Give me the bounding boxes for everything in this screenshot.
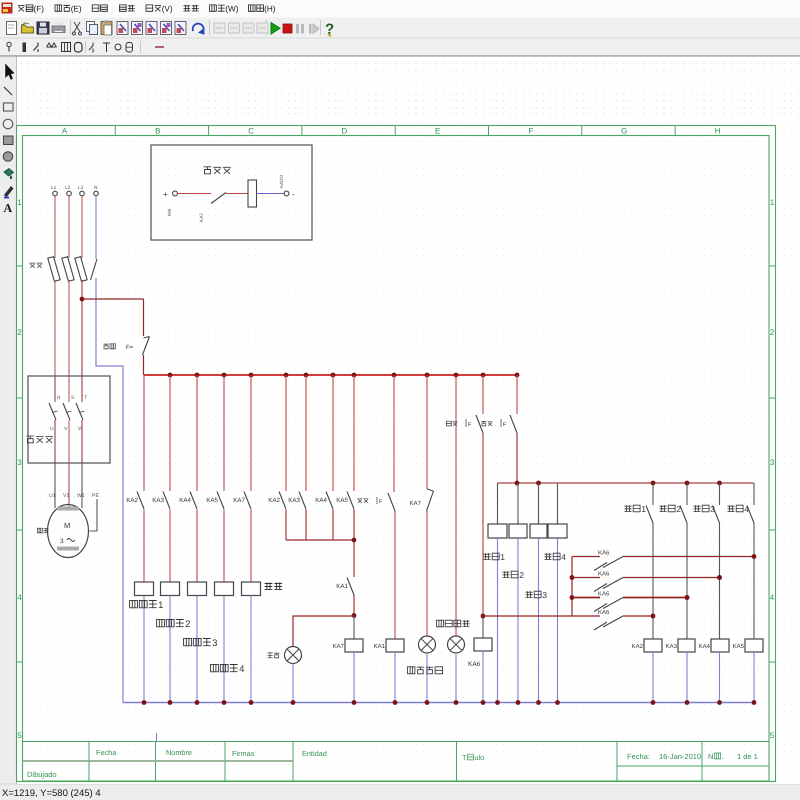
water alarm lamp HL2 [426, 511, 428, 636]
neutral terminal N [94, 191, 99, 196]
svg-text:PE: PE [92, 493, 99, 499]
svg-text:KA3: KA3 [288, 497, 300, 504]
svg-text:V1: V1 [63, 493, 69, 499]
toolbar icon: open [22, 25, 34, 33]
temp controller box 2 [509, 524, 527, 538]
toolbar2 icon: wire dash [155, 46, 164, 48]
wire F1 to bus [143, 355, 145, 375]
coil KA4 right [711, 639, 729, 652]
KA6 NC contact branch 3 [572, 597, 600, 599]
node neutral bus x=395 [393, 700, 398, 705]
svg-text:1: 1 [17, 198, 22, 207]
svg-text:2: 2 [519, 570, 524, 580]
coil KA3 right [678, 639, 695, 652]
label solenoid valve 2 [157, 619, 184, 626]
inverter label bian-pin-qi [27, 436, 53, 443]
svg-text:W1: W1 [77, 493, 85, 499]
svg-text:KA6: KA6 [598, 591, 610, 598]
svg-text:2: 2 [185, 619, 190, 630]
node neutral bus x=197 [195, 700, 200, 705]
temp box outputs to bus [497, 538, 499, 703]
toolbar2 icon: contact [34, 43, 39, 53]
svg-text:3: 3 [17, 458, 22, 467]
auto switch to temp bus [516, 433, 518, 483]
node temp bus x=719.5 [717, 481, 722, 486]
toolbar icon: run [271, 23, 280, 35]
canvas grid bands [20, 63, 800, 65]
label kong-kai (air breaker) [29, 263, 42, 268]
svg-text:4: 4 [239, 664, 244, 675]
node bus L+ x=333 [331, 373, 336, 378]
detail wire minus [257, 193, 285, 195]
svg-text:KA7: KA7 [199, 213, 205, 222]
label water shortage alarm [408, 667, 443, 674]
svg-text:KA2: KA2 [126, 497, 138, 504]
node temp sw3 tap [717, 575, 722, 580]
node neutral bus x=483 [481, 700, 486, 705]
palette icon: pen [5, 187, 14, 197]
frame outer border [17, 126, 776, 782]
node temp bus x=653 [651, 481, 656, 486]
svg-text:KA3: KA3 [152, 497, 164, 504]
svg-text:1 de 1: 1 de 1 [737, 752, 758, 761]
node neutral bus x=427 [425, 700, 430, 705]
node neutral bus x=687 [685, 700, 690, 705]
svg-text:4: 4 [17, 593, 22, 602]
toolbar2 icon: small circle [115, 44, 121, 50]
node bus L+ x=224 [222, 373, 227, 378]
title block lines [23, 741, 770, 743]
node KA6 branch [481, 614, 486, 619]
node bus L+ x=394 [392, 373, 397, 378]
svg-text:3: 3 [710, 504, 715, 514]
toolbar2 icon: T symbol [103, 43, 110, 52]
KA6 ladder feeder [571, 557, 573, 617]
toolbar icons: disabled group [214, 23, 225, 33]
svg-text:2: 2 [676, 504, 681, 514]
node bus L+ x=286 [284, 373, 289, 378]
svg-text:Entidad: Entidad [302, 749, 327, 758]
label temp ctrl 4 (box) [545, 553, 561, 560]
svg-text:2: 2 [17, 328, 22, 337]
circuit breaker QF pole 2 [62, 257, 74, 282]
left tool palette [0, 56, 17, 784]
toolbar icon: print [52, 26, 65, 33]
contact KA5 row1 [217, 492, 224, 510]
svg-text:KA4: KA4 [179, 497, 191, 504]
wire drop col KA3 [169, 375, 171, 491]
coil KA5 right [745, 639, 763, 652]
start pushbutton SB1 [388, 493, 395, 511]
contact KA2 row1 [137, 492, 144, 510]
contact KA5 row2 [347, 492, 354, 510]
svg-text:2: 2 [770, 328, 775, 337]
svg-text:L2: L2 [65, 185, 71, 191]
svg-text:(V): (V) [162, 5, 173, 14]
node bus L+ x=170 [168, 373, 173, 378]
svg-text:4: 4 [744, 504, 749, 514]
frequency drive detail box [151, 145, 312, 240]
svg-text:(F): (F) [34, 5, 45, 14]
node neutral bus x=293 [291, 700, 296, 705]
node bus L+ x=456 [454, 373, 459, 378]
node neutral bus x=538.5 [536, 700, 541, 705]
node bus L+ x=483 [481, 373, 486, 378]
svg-text:Firmas: Firmas [232, 749, 255, 758]
inverter input leads R S T [54, 377, 56, 402]
wire drop col KA7 NC [426, 375, 428, 489]
node neutral bus x=754 [752, 700, 757, 705]
svg-text:Dibujado: Dibujado [27, 770, 57, 779]
svg-text:.: . [722, 752, 724, 761]
toolbar icon: copy [87, 22, 95, 32]
frame column ticks [114, 126, 116, 136]
emergency stop breaker F1 [144, 337, 150, 339]
green lamp HL1 [285, 647, 302, 664]
svg-text:U: U [50, 426, 54, 432]
svg-text:KA5: KA5 [733, 643, 745, 650]
palette icon: line [4, 87, 12, 95]
svg-text:KA3: KA3 [666, 643, 678, 650]
lamp HL1 to bus [292, 664, 294, 703]
wire N upper [95, 196, 97, 259]
motor M1 [48, 505, 89, 558]
palette icon: pointer [6, 64, 15, 80]
wire drop col KA4b [332, 375, 334, 491]
temp controller box 4 [548, 524, 567, 538]
toolbar icon: stop [283, 24, 292, 33]
coil KA2 right [644, 639, 662, 652]
auto switch SA2 [516, 375, 518, 414]
temp switch 4 [753, 483, 755, 505]
node temp bus x=687 [685, 481, 690, 486]
svg-text:3: 3 [60, 538, 64, 545]
toolbar icons: component library (5) [117, 22, 128, 35]
temp controller feeds [497, 483, 499, 524]
contact KA4 row2 [326, 492, 333, 510]
palette icon: filled ellipse [3, 152, 13, 162]
svg-text:KA6: KA6 [598, 571, 610, 578]
svg-text:KA5: KA5 [206, 497, 218, 504]
svg-text:3: 3 [212, 638, 217, 649]
phase terminal L3 [80, 191, 85, 196]
wire L3 lower [81, 280, 83, 377]
neutral bottom bus [123, 702, 754, 704]
svg-text:KA4: KA4 [699, 643, 711, 650]
node neutral bus x=456 [454, 700, 459, 705]
temp switch 1 [652, 483, 654, 505]
svg-text:(E): (E) [71, 5, 82, 14]
wire L1 lower [54, 280, 56, 377]
svg-text:3: 3 [542, 590, 547, 600]
detail box title bian-pin-qi [204, 166, 231, 173]
temp switch 3 [719, 483, 721, 505]
manual switch SA1 [482, 375, 484, 414]
detail wire to resistor [226, 193, 248, 195]
svg-text:F=: F= [126, 344, 134, 351]
detail - terminal [284, 191, 289, 196]
green lamp branch wire [293, 616, 354, 646]
svg-text:D: D [342, 127, 348, 136]
svg-text:1: 1 [641, 504, 646, 514]
svg-text:C: C [248, 127, 254, 136]
solenoid coil Y2 [161, 582, 180, 596]
svg-text:KA6: KA6 [468, 661, 481, 668]
svg-text:KA2: KA2 [632, 643, 644, 650]
label temp ctrl 3 (box) [526, 591, 542, 598]
toolbar icon: paste [101, 22, 112, 35]
label dian-ji (motor) [37, 528, 48, 533]
wire drop col power lamp [455, 375, 457, 636]
contact KA7 row1 [244, 492, 251, 510]
phase terminal L2 [67, 191, 72, 196]
wire L2 lower [68, 280, 70, 377]
wire drop col KA5b [353, 375, 355, 491]
inverter output leads [54, 420, 56, 463]
svg-text:E: E [435, 127, 440, 136]
svg-text:KA7: KA7 [333, 643, 345, 650]
node temp sw2 tap [685, 595, 690, 600]
svg-text:R: R [57, 395, 61, 401]
svg-text:(H): (H) [264, 5, 276, 14]
wire L1 upper [54, 196, 56, 258]
wire drop col KA3b [305, 375, 307, 491]
svg-text:KA7: KA7 [233, 497, 245, 504]
svg-text:-: - [292, 190, 295, 199]
detail resistor component [248, 180, 257, 207]
svg-text:Nombre: Nombre [166, 748, 192, 757]
temp controller box 3 [530, 524, 547, 538]
circuit breaker QF pole 1 [48, 257, 60, 282]
svg-text:A: A [4, 201, 13, 215]
KA6 NC contact branch 2 [572, 577, 600, 579]
wire drop col start button [393, 375, 395, 492]
motor PE wire [90, 499, 98, 531]
node neutral bus x=251 [249, 700, 254, 705]
wire L3 upper [81, 196, 83, 258]
label F1 actuator [103, 344, 115, 349]
wire drop col KA7 [250, 375, 252, 491]
wire drop col KA2b [285, 375, 287, 491]
svg-text:KA5: KA5 [336, 497, 348, 504]
svg-text:5: 5 [770, 731, 775, 740]
label green lamp [267, 653, 279, 658]
node bus L+ x=251 [249, 373, 254, 378]
svg-text:3: 3 [770, 458, 775, 467]
temp switch 2 [686, 483, 688, 505]
frame row ticks [17, 265, 23, 267]
svg-text:T: T [462, 753, 467, 762]
node neutral bus x=719.5 [717, 700, 722, 705]
toolbar row 2 [0, 39, 800, 56]
frame inner border [23, 136, 770, 782]
svg-text:L3: L3 [78, 185, 84, 191]
power indicator lamp HL3 [448, 636, 465, 653]
svg-text:KA2: KA2 [268, 497, 280, 504]
wire L2 upper [68, 196, 70, 258]
node bus L+ x=354 [352, 373, 357, 378]
svg-text:+: + [163, 190, 168, 199]
breaker switch blade N [91, 259, 98, 280]
svg-text:B: B [155, 127, 160, 136]
label temp ctrl 1 (box) [484, 553, 500, 560]
node neutral bus x=144 [142, 700, 147, 705]
svg-text:IN9: IN9 [167, 208, 172, 216]
label solenoid valve 1 [130, 600, 157, 607]
palette icon: filled rectangle [4, 136, 14, 145]
wire drop col KA4 [196, 375, 198, 491]
palette icon: rectangle [4, 103, 14, 111]
toolbar icon: cut [74, 22, 80, 32]
node bus L+ x=517 [515, 373, 520, 378]
toolbar icon: pause [296, 24, 299, 34]
svg-text:4: 4 [770, 593, 775, 602]
coil KA6 [474, 638, 492, 651]
toolbar2 icon: ring [75, 43, 83, 53]
svg-text:Fecha: Fecha [96, 748, 117, 757]
svg-text:U1: U1 [49, 493, 56, 499]
relief valve coil [242, 582, 261, 596]
coil KA1 [394, 511, 396, 639]
svg-text:1: 1 [770, 198, 775, 207]
svg-text:4: 4 [561, 552, 566, 562]
toolbar2 icon: grid symbol [62, 43, 71, 52]
svg-text:KA7: KA7 [410, 500, 422, 507]
toolbar2 icon: small contact [89, 43, 93, 53]
inverter contact blades [49, 403, 56, 420]
wire drop col KA2 [143, 375, 145, 491]
svg-text:T: T [84, 395, 87, 401]
toolbar icon: step [309, 24, 312, 34]
KA6 coil feed [482, 433, 484, 616]
node neutral bus x=653 [651, 700, 656, 705]
contact KA1 [353, 540, 355, 577]
svg-text:N: N [94, 185, 98, 191]
contact KA3 row1 [163, 492, 170, 510]
svg-text:1: 1 [158, 600, 163, 611]
phase terminal L1 [53, 191, 58, 196]
label solenoid valve 4 [211, 664, 238, 671]
svg-text:X=1219, Y=580 (245) 4: X=1219, Y=580 (245) 4 [2, 788, 101, 799]
wire drop col KA5 [223, 375, 225, 491]
main control bus L+ [144, 374, 518, 376]
contact KA4 row1 [190, 492, 197, 510]
circuit breaker QF pole 3 [75, 257, 87, 282]
detail contact KA7 [211, 193, 226, 204]
label power indicator [437, 620, 470, 627]
svg-text:N: N [708, 752, 713, 761]
svg-text:KA1: KA1 [336, 583, 348, 590]
palette icon: ellipse [3, 119, 13, 129]
toolbar2 icon: coil W [47, 43, 57, 47]
menu items [18, 5, 33, 11]
wire N lower run [96, 278, 123, 703]
svg-text:1: 1 [500, 552, 505, 562]
wire control feed horizontal [82, 298, 144, 300]
wire stub at title block [156, 733, 158, 742]
toolbar row 1 [0, 17, 800, 39]
svg-text:G: G [621, 127, 627, 136]
detail wire plus [178, 193, 212, 195]
inverter box U2 [28, 376, 110, 463]
toolbar icon: save [37, 22, 49, 34]
node temp bus x=538.5 [536, 481, 541, 486]
toolbar icon: new [7, 22, 17, 35]
toolbar2 icon: pole [7, 42, 11, 46]
node lamp branch [352, 613, 357, 618]
svg-text:F: F [529, 127, 534, 136]
node neutral bus x=224 [222, 700, 227, 705]
contact KA7 NC water [427, 489, 434, 491]
node bus L+ x=197 [195, 373, 200, 378]
svg-text:(W): (W) [225, 5, 238, 14]
svg-text:KA6: KA6 [598, 550, 610, 557]
temp controller box 1 [488, 524, 507, 538]
temperature feed bus [498, 482, 755, 484]
solenoid coil Y1 [135, 582, 154, 596]
wire control feed drop [143, 299, 145, 336]
svg-text:L1: L1 [51, 185, 57, 191]
solenoid coil Y3 [188, 582, 207, 596]
svg-text:Fecha:: Fecha: [627, 752, 650, 761]
toolbar2 icon: bar [23, 43, 27, 53]
node neutral bus x=354 [352, 700, 357, 705]
node bus L+ x=306 [304, 373, 309, 378]
KA6 NC contact branch 1 [572, 556, 600, 558]
status bar [0, 784, 800, 800]
svg-text:5: 5 [17, 731, 22, 740]
node neutral bus x=497.5 [495, 700, 500, 705]
coil KA7 [353, 616, 355, 640]
label relief (xie ya) [265, 582, 283, 589]
menu bar [0, 0, 800, 17]
node temp bus x=517 [515, 481, 520, 486]
svg-text:KA1: KA1 [374, 643, 386, 650]
svg-text:16-Jan-2010: 16-Jan-2010 [659, 752, 701, 761]
node neutral bus x=170 [168, 700, 173, 705]
label solenoid valve 3 [184, 638, 211, 645]
node L3 control tap [80, 297, 85, 302]
svg-text:ulo: ulo [474, 753, 484, 762]
svg-text:KADO: KADO [279, 175, 284, 188]
node bus L+ x=427 [425, 373, 430, 378]
KA6 NC contact branch 4 [483, 615, 600, 617]
node neutral bus x=518 [516, 700, 521, 705]
contact KA3 row2 [299, 492, 306, 510]
svg-text:KA4: KA4 [315, 497, 327, 504]
toolbar2 icon: capsule [126, 43, 133, 53]
node neutral bus x=557.5 [555, 700, 560, 705]
label temp ctrl 2 (box) [503, 571, 519, 578]
svg-text:H: H [715, 127, 721, 136]
app icon [2, 3, 13, 14]
toolbar icon: redo [193, 24, 204, 33]
svg-text:KA6: KA6 [598, 609, 610, 616]
palette icon: fill bucket [4, 169, 14, 177]
solenoid coil Y4 [215, 582, 234, 596]
svg-text:M: M [64, 521, 70, 530]
svg-text:A: A [62, 127, 68, 136]
contact KA2 row2 [279, 492, 286, 510]
interlock merge net [286, 539, 354, 541]
motor feed wires [54, 463, 56, 508]
